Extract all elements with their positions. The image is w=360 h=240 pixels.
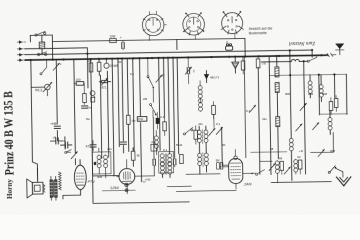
wire V269b column: [269, 62, 271, 175]
resistor R11: [329, 98, 333, 115]
wire V346 column: [345, 74, 348, 114]
wire V319 column: [318, 75, 321, 115]
coil L7 oscillator: [198, 81, 202, 112]
wire V152 lower: [152, 117, 155, 175]
tube diagram U1 socket view: [142, 11, 167, 41]
tube V1 PTV output: [62, 160, 86, 199]
wire V140 column: [140, 58, 142, 181]
wire H0 switch link: [30, 35, 52, 60]
loudspeaker LS1: [27, 179, 45, 198]
wire V313 column: [311, 50, 313, 57]
trimmer C18: [284, 167, 291, 174]
coil L6: [154, 130, 158, 154]
wire grid link: [167, 185, 191, 187]
capacitor C5: [120, 36, 124, 50]
coil L14: [294, 159, 298, 174]
resistor R8: [194, 126, 198, 145]
switch S0: [40, 60, 47, 75]
tube V2 mixer: [116, 159, 154, 194]
wire H3 rail: [25, 50, 312, 55]
transformer T5 IF2: [159, 151, 174, 177]
wire V122 column: [122, 59, 124, 153]
trimmer C10: [216, 127, 223, 134]
resistor R13: [279, 156, 284, 174]
wire V164 column: [163, 58, 166, 117]
switch S2 wave band: [37, 52, 46, 56]
wire cathode rail: [251, 152, 287, 162]
wire V259 column: [258, 67, 260, 174]
switch S4: [147, 58, 155, 118]
trimmer C17: [269, 163, 276, 170]
trimmer C16: [312, 123, 319, 130]
wire bottom rail L1: [94, 202, 189, 204]
lamp E1: [104, 59, 109, 69]
switch S6: [243, 170, 265, 176]
antenna terminal 3: [17, 53, 26, 56]
capacitor C13 electrolytic: [232, 57, 239, 74]
coil L13: [275, 160, 279, 182]
trimmer C15: [296, 124, 303, 131]
antenna mast symbol: [335, 44, 344, 55]
coil L4 field: [59, 172, 62, 190]
coil L8 hf choke: [291, 59, 299, 61]
wire V221 column: [221, 127, 224, 165]
wire H2 rail: [25, 48, 88, 89]
wire V334 column: [333, 74, 335, 97]
capacitor C2b: [54, 126, 60, 128]
resistor R7: [163, 117, 167, 136]
resistor R15: [256, 56, 266, 68]
wire V173 column: [173, 58, 175, 157]
wire H116 link: [319, 113, 346, 115]
resistor R14: [297, 155, 302, 174]
potentiometer R1 volume: [31, 82, 52, 96]
capacitor C24: [120, 142, 126, 144]
trimmer C9: [209, 128, 216, 135]
pilot lamp E2: [125, 183, 129, 192]
trimmer C21: [249, 105, 256, 112]
switch S5: [183, 127, 193, 135]
wire V133 column: [133, 58, 134, 150]
trimmer C22: [318, 149, 325, 156]
transformer T1 output: [50, 176, 57, 200]
wire speaker riser: [36, 168, 38, 182]
antenna terminal 2: [17, 48, 26, 51]
capacitor C8 trimmer: [185, 57, 195, 83]
resistor R2b: [83, 94, 87, 105]
wire V100 column: [100, 75, 101, 158]
wire V64 column: [64, 137, 66, 149]
trimmer C0: [53, 62, 62, 70]
antenna terminal 1: [17, 41, 26, 44]
wire grid lead: [220, 166, 229, 168]
capacitor C19: [153, 157, 156, 167]
capacitor C1: [50, 135, 62, 144]
wire V118 column: [118, 59, 119, 147]
coil L15: [289, 138, 293, 151]
wire H1 drop: [244, 38, 246, 56]
lamp E3 scale: [225, 40, 232, 50]
switch S3: [65, 150, 72, 154]
resistor R6 GW: [137, 117, 147, 122]
wire V289 column: [290, 50, 292, 180]
resistor R9: [212, 101, 216, 118]
resistor R16: [180, 154, 184, 163]
switch S1 aerial: [35, 31, 46, 36]
wire V177 column: [177, 40, 179, 154]
wire V88 column: [91, 59, 93, 203]
resistor R4 GW: [110, 34, 117, 42]
wire V244 column: [244, 57, 246, 158]
scan noise texture: [0, 0, 1, 1]
coil L11: [319, 75, 323, 102]
tube diagram U2 socket view: [183, 12, 205, 39]
wire V57 column: [56, 60, 57, 141]
wire V left feed: [31, 60, 38, 180]
capacitor C6: [86, 140, 97, 151]
wire osc links: [176, 165, 236, 191]
wire bottom right rail: [271, 181, 331, 184]
coil L12 primary: [328, 111, 332, 135]
capacitor C11 block: [216, 158, 223, 169]
wire V332 link: [310, 133, 333, 153]
wire V128 column: [127, 58, 129, 151]
coil L10: [308, 75, 312, 98]
resistor R3b: [97, 59, 101, 75]
coil L1 antenna: [39, 35, 45, 54]
ground symbol: [336, 177, 351, 186]
wire bus chassis rail: [25, 55, 327, 60]
switch S8: [328, 166, 343, 178]
switch S4b: [150, 103, 157, 115]
resistor R10: [241, 57, 245, 74]
wire V168 column: [168, 58, 170, 154]
resistor R2: [74, 77, 84, 93]
wire terminal 1 riser: [29, 35, 31, 41]
resistor R5: [131, 148, 140, 167]
earth terminal 4: [17, 59, 26, 62]
wire H4 rail: [261, 60, 307, 63]
wire V304 column: [304, 61, 306, 174]
capacitor C23 PM: [151, 140, 157, 151]
wire V74 column: [74, 59, 76, 164]
coil L9: [276, 117, 281, 159]
node A bus dots: [30, 49, 336, 81]
resistor R3: [88, 59, 93, 72]
trimmer C3: [71, 152, 78, 159]
connector plug P1: [327, 53, 336, 56]
wire V112 column: [112, 59, 114, 176]
trimmer C4 padder: [99, 78, 110, 85]
label misc values: [86, 60, 335, 179]
wire under tube: [102, 189, 135, 192]
capacitor C2 electrolytic: [61, 139, 72, 148]
switch S7 mains: [307, 55, 317, 62]
capacitor C2c: [82, 105, 93, 109]
capacitor C7: [156, 112, 160, 129]
diode D1 detector: [90, 91, 95, 102]
capacitor C20: [173, 157, 176, 167]
wire mid join: [93, 175, 119, 177]
wire V107 column: [107, 71, 108, 157]
transformer T4 IF2: [275, 56, 280, 116]
wire V269 column: [268, 56, 270, 62]
transformer T3 oscillator: [197, 126, 208, 174]
transformer T2 IF: [92, 148, 111, 178]
trimmer C14: [300, 103, 307, 110]
wire H77 link: [269, 74, 346, 75]
wire H1 top rail: [53, 38, 245, 41]
wire V159 column: [159, 58, 160, 150]
tube diagram U3 socket view: [221, 11, 244, 39]
resistor R17: [126, 115, 136, 124]
tube V3 2AN output: [228, 149, 243, 189]
resistor R12: [334, 95, 338, 111]
trimmer C4b: [156, 73, 166, 82]
wire V213 column: [213, 114, 215, 127]
diode D2: [204, 70, 219, 82]
